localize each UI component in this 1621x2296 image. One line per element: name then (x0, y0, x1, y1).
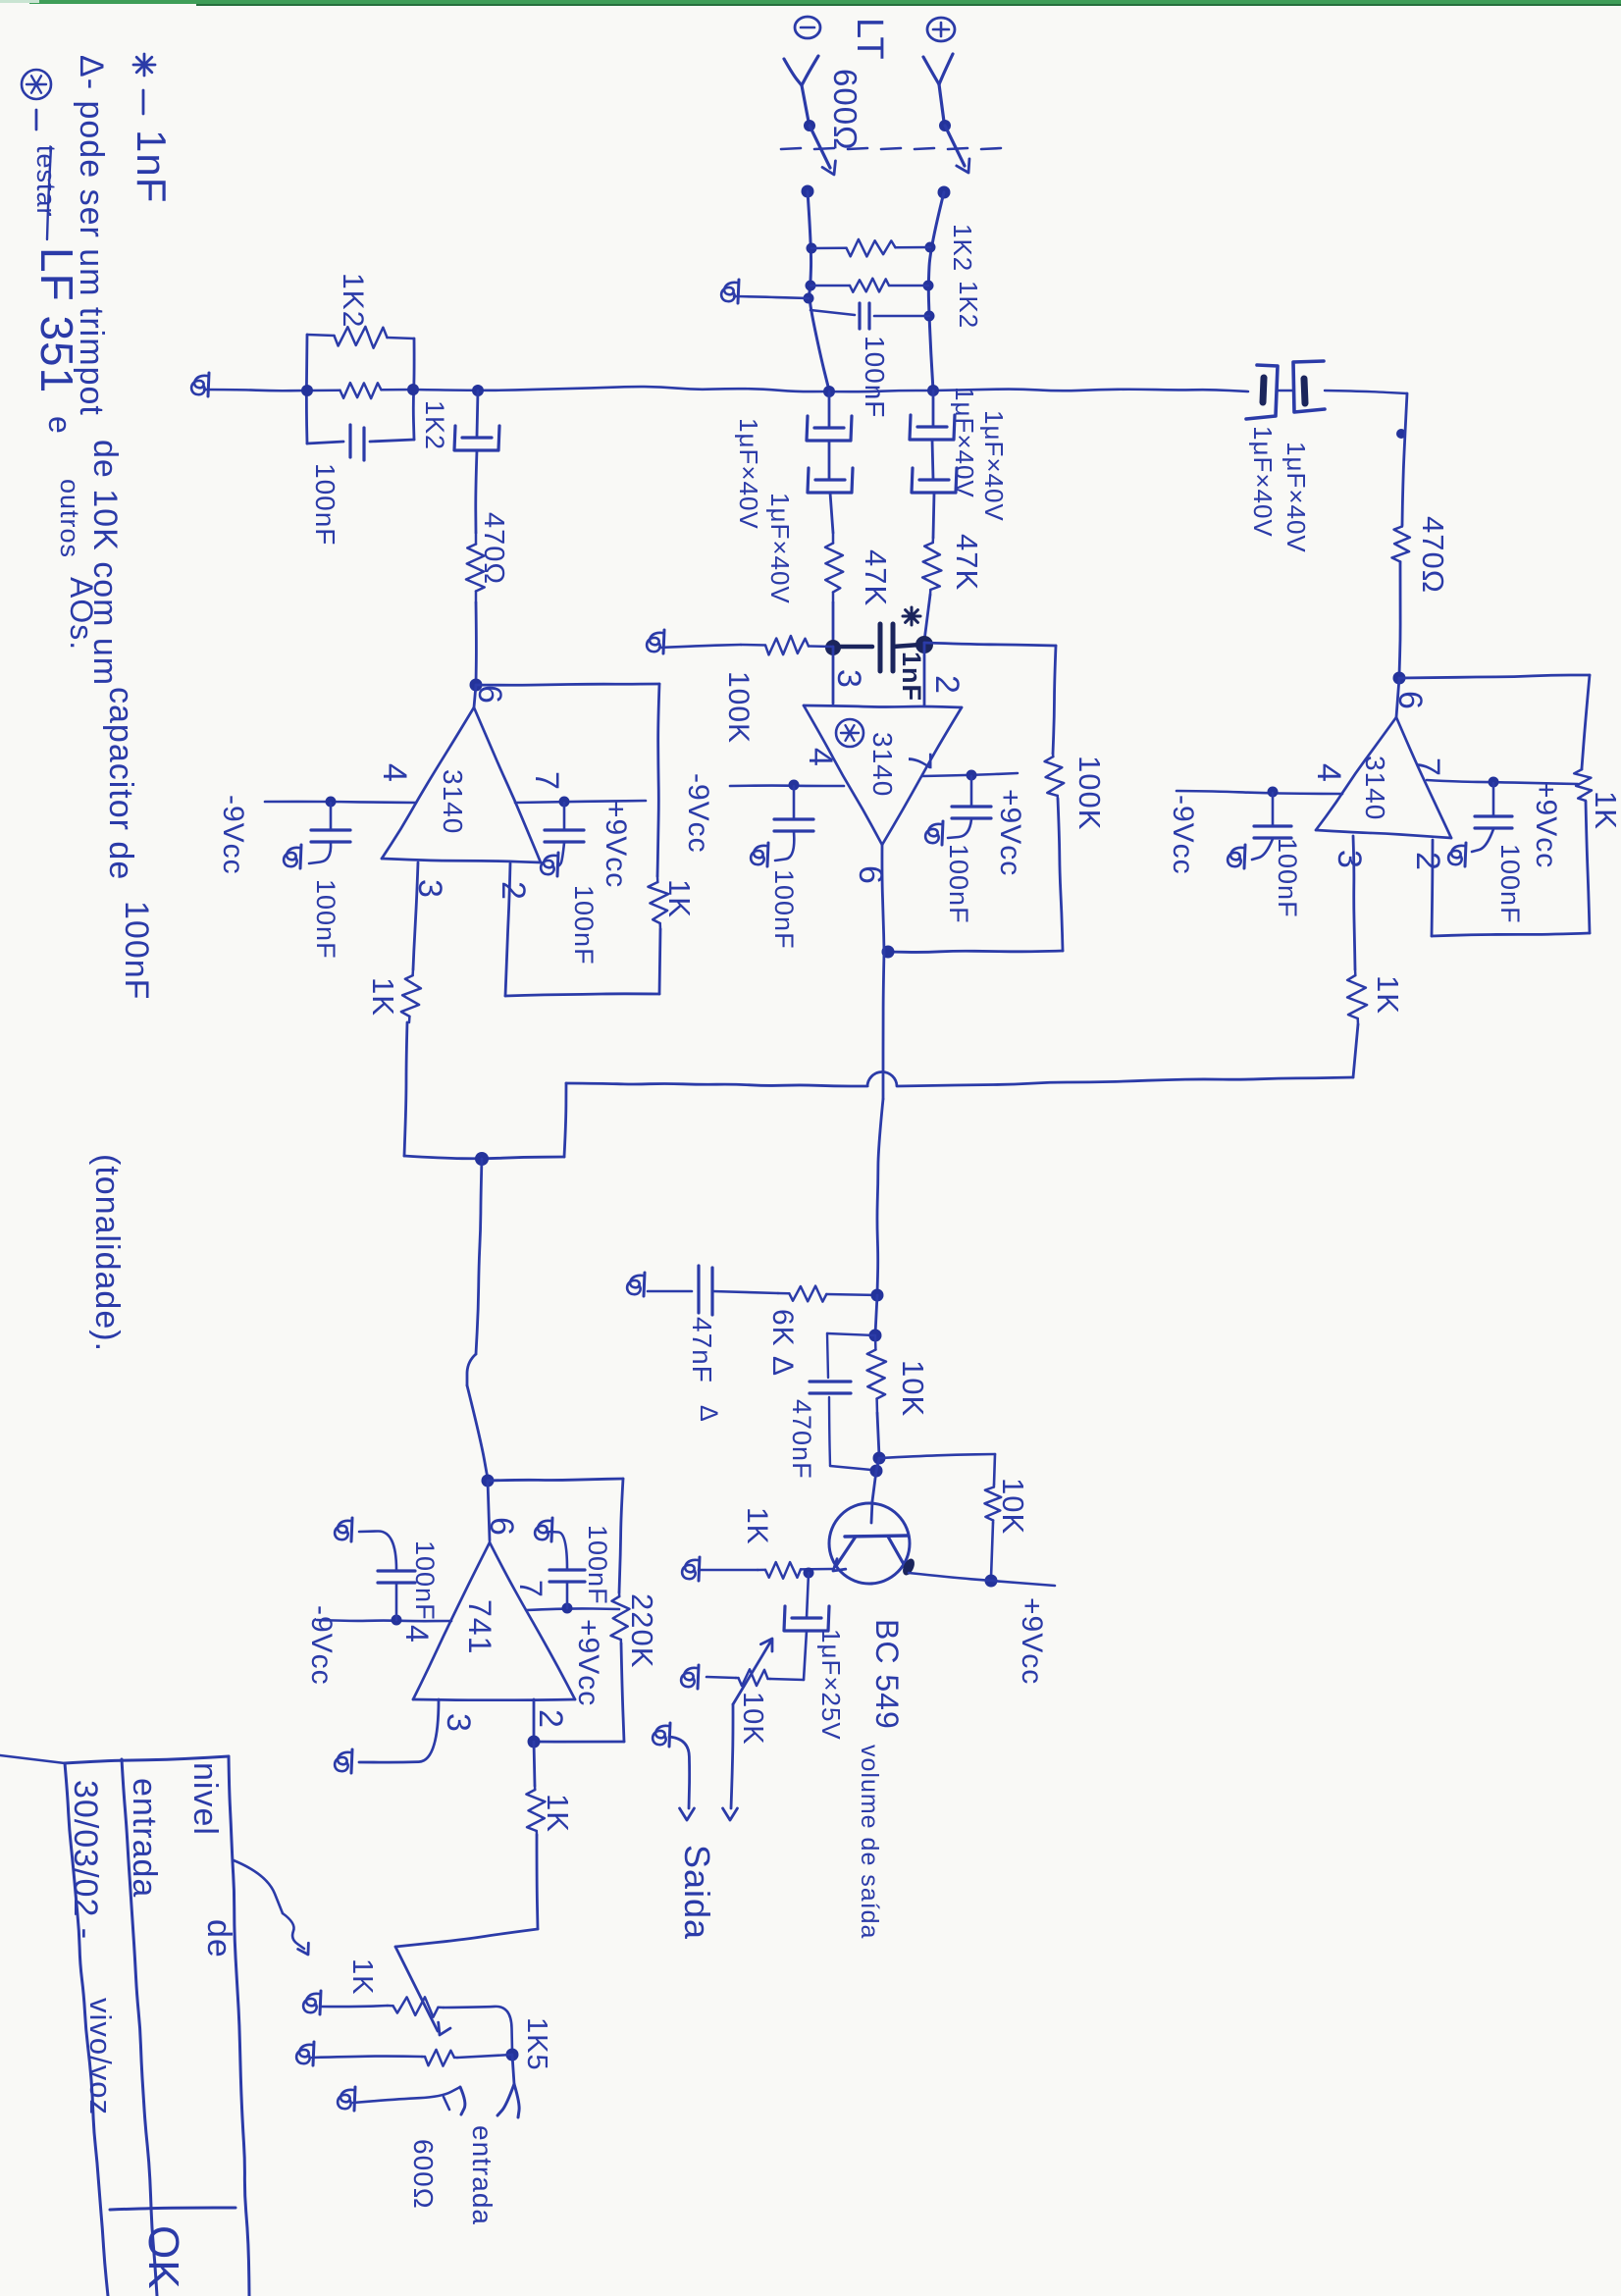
svg-text:100nF: 100nF (1495, 844, 1525, 924)
svg-text:1μF×25V: 1μF×25V (816, 1629, 846, 1741)
svg-text:-9Vcc: -9Vcc (305, 1605, 338, 1686)
svg-text:30/03/02 -: 30/03/02 - (67, 1780, 104, 1940)
svg-text:3: 3 (440, 1713, 477, 1733)
svg-text:de: de (200, 1919, 237, 1958)
svg-text:100nF: 100nF (1273, 838, 1302, 918)
svg-text:+9Vcc: +9Vcc (600, 801, 632, 888)
svg-text:2: 2 (1409, 852, 1446, 871)
svg-text:1μF×40V: 1μF×40V (950, 387, 979, 498)
svg-text:1μF×40V: 1μF×40V (979, 410, 1009, 522)
svg-text:10K: 10K (996, 1478, 1030, 1535)
svg-text:4: 4 (802, 748, 839, 767)
svg-text:3140: 3140 (1360, 756, 1390, 820)
svg-text:220K: 220K (625, 1593, 659, 1668)
svg-text:7: 7 (528, 771, 565, 791)
svg-text:600Ω: 600Ω (827, 69, 863, 151)
svg-text:6K Δ: 6K Δ (766, 1309, 799, 1377)
svg-text:1μF×40V: 1μF×40V (765, 493, 795, 604)
svg-text:+9Vcc: +9Vcc (572, 1619, 604, 1706)
svg-text:100K: 100K (1072, 756, 1107, 830)
svg-text:470Ω: 470Ω (478, 512, 509, 585)
svg-text:4: 4 (376, 763, 413, 783)
svg-text:100nF: 100nF (583, 1525, 612, 1605)
svg-text:vivo/voz: vivo/voz (83, 1998, 118, 2115)
svg-text:47nF: 47nF (687, 1317, 717, 1383)
svg-text:100nF: 100nF (769, 869, 799, 950)
svg-text:100nF: 100nF (944, 844, 973, 924)
svg-text:100nF: 100nF (860, 336, 890, 418)
svg-text:1K: 1K (1589, 791, 1621, 830)
svg-text:3: 3 (830, 669, 867, 689)
svg-text:2: 2 (928, 675, 966, 695)
svg-text:100nF: 100nF (310, 463, 340, 546)
svg-text:47K: 47K (859, 549, 893, 606)
svg-text:1K: 1K (346, 1958, 378, 1995)
svg-text:1K2: 1K2 (337, 273, 369, 328)
svg-text:1K2: 1K2 (954, 281, 983, 329)
svg-text:470Ω: 470Ω (1416, 516, 1450, 594)
svg-text:Δ: Δ (695, 1405, 722, 1423)
svg-text:600Ω: 600Ω (408, 2139, 439, 2210)
svg-text:+9Vcc: +9Vcc (1016, 1597, 1048, 1685)
svg-text:4: 4 (1310, 763, 1347, 783)
svg-text:2: 2 (495, 881, 532, 901)
svg-text:testar: testar (31, 145, 61, 218)
svg-text:6: 6 (1391, 691, 1429, 710)
svg-text:-9Vcc: -9Vcc (682, 773, 714, 854)
svg-text:AOs.: AOs. (64, 577, 99, 651)
svg-text:1μF×40V: 1μF×40V (734, 418, 763, 530)
svg-text:1K: 1K (366, 977, 400, 1017)
svg-text:100nF: 100nF (311, 879, 340, 960)
svg-text:BC 549: BC 549 (869, 1619, 905, 1730)
svg-text:7: 7 (901, 752, 938, 771)
svg-text:outros: outros (55, 479, 84, 558)
svg-text:100nF: 100nF (410, 1540, 440, 1621)
svg-text:1K: 1K (741, 1507, 773, 1545)
svg-text:capacitor de: capacitor de (102, 687, 139, 880)
svg-text:+9Vcc: +9Vcc (1530, 781, 1562, 868)
svg-text:1μF×40V: 1μF×40V (1281, 442, 1311, 553)
svg-text:+9Vcc: +9Vcc (994, 789, 1026, 876)
svg-text:3140: 3140 (438, 769, 468, 834)
svg-text:2: 2 (532, 1709, 569, 1729)
svg-text:1K2: 1K2 (420, 400, 449, 450)
svg-text:100nF: 100nF (569, 885, 599, 965)
svg-text:10K: 10K (737, 1692, 768, 1746)
svg-text:10K: 10K (896, 1360, 930, 1417)
svg-text:6: 6 (483, 1517, 520, 1537)
svg-text:LT: LT (849, 18, 890, 61)
svg-text:3140: 3140 (867, 732, 898, 797)
svg-text:47K: 47K (950, 534, 984, 591)
svg-text:100nF: 100nF (118, 901, 155, 1000)
svg-text:1K: 1K (1371, 975, 1405, 1015)
svg-text:-9Vcc: -9Vcc (217, 795, 249, 875)
svg-text:7: 7 (513, 1580, 549, 1598)
svg-text:1μF×40V: 1μF×40V (1248, 426, 1278, 538)
svg-text:1K2: 1K2 (948, 224, 977, 272)
svg-text:1K: 1K (541, 1794, 575, 1833)
svg-text:OK: OK (139, 2225, 187, 2290)
svg-text:1K: 1K (662, 879, 697, 918)
svg-text:entrada: entrada (467, 2125, 497, 2225)
svg-text:e: e (42, 416, 78, 435)
svg-text:1nF: 1nF (897, 652, 926, 702)
svg-text:nivel: nivel (186, 1762, 224, 1836)
svg-text:100K: 100K (722, 671, 755, 744)
svg-text:(tonalidade).: (tonalidade). (88, 1154, 126, 1352)
svg-text:1nF: 1nF (129, 130, 175, 203)
svg-text:4: 4 (399, 1625, 435, 1644)
svg-text:1K5: 1K5 (521, 2017, 552, 2071)
svg-text:Saida: Saida (677, 1845, 717, 1940)
svg-text:470nF: 470nF (787, 1399, 816, 1480)
svg-text:volume de saída: volume de saída (856, 1745, 883, 1939)
svg-text:741: 741 (462, 1599, 497, 1654)
svg-text:3: 3 (1331, 850, 1368, 869)
svg-text:LF 351: LF 351 (31, 247, 82, 393)
svg-text:-9Vcc: -9Vcc (1167, 795, 1199, 875)
svg-text:7: 7 (1409, 757, 1446, 777)
